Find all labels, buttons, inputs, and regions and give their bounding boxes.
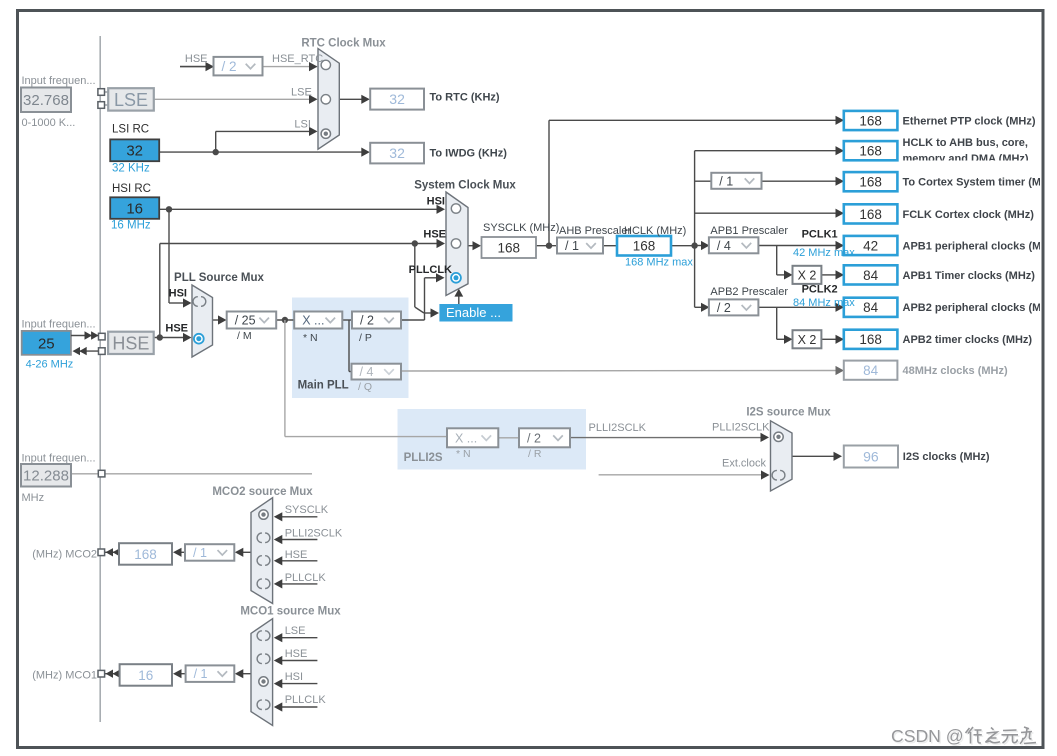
svg-text:* N: * N [456,448,471,460]
svg-text:168: 168 [859,113,882,128]
svg-text:32: 32 [126,143,143,160]
svg-text:To RTC (KHz): To RTC (KHz) [430,91,500,103]
svg-text:/ 25: / 25 [235,314,256,328]
svg-text:PLLCLK: PLLCLK [409,264,452,276]
svg-text:42: 42 [863,238,878,253]
svg-text:168: 168 [859,207,882,222]
svg-text:PLLCLK: PLLCLK [285,694,327,706]
svg-text:PCLK2: PCLK2 [802,284,838,296]
svg-text:/ 2: / 2 [717,301,731,315]
svg-text:HSI: HSI [427,196,445,208]
svg-text:/ R: / R [528,448,542,460]
svg-text:12.288: 12.288 [23,468,69,485]
svg-text:/ M: / M [237,330,252,342]
svg-text:RTC Clock Mux: RTC Clock Mux [301,37,386,49]
svg-text:(MHz) MCO1: (MHz) MCO1 [32,670,97,682]
svg-text:SYSCLK (MHz): SYSCLK (MHz) [483,222,559,234]
svg-text:LSE: LSE [114,90,148,110]
svg-text:168: 168 [859,175,882,190]
svg-text:FCLK Cortex clock (MHz): FCLK Cortex clock (MHz) [903,209,1035,221]
svg-text:PLLCLK: PLLCLK [285,572,327,584]
svg-text:Ethernet PTP clock (MHz): Ethernet PTP clock (MHz) [903,115,1036,127]
svg-text:25: 25 [38,335,55,352]
svg-text:/ P: / P [359,332,372,344]
svg-text:X ...: X ... [302,314,324,328]
svg-text:/ Q: / Q [358,381,372,393]
svg-text:AHB Prescaler: AHB Prescaler [559,225,631,237]
svg-text:Ext.clock: Ext.clock [722,458,767,470]
svg-text:To IWDG (KHz): To IWDG (KHz) [430,148,508,160]
svg-text:* N: * N [303,332,318,344]
svg-text:Input frequen...: Input frequen... [22,453,96,465]
svg-text:HSE_RTC: HSE_RTC [272,53,323,65]
svg-text:LSE: LSE [291,86,312,98]
svg-text:/ 1: / 1 [193,546,207,560]
svg-text:16: 16 [126,200,143,217]
svg-text:Input frequen...: Input frequen... [22,318,96,330]
svg-text:48MHz clocks (MHz): 48MHz clocks (MHz) [903,365,1008,377]
svg-text:84: 84 [863,300,879,315]
svg-text:APB1 Timer clocks (MHz): APB1 Timer clocks (MHz) [903,270,1036,282]
svg-text:84: 84 [863,268,879,283]
svg-text:42 MHz max: 42 MHz max [793,247,855,259]
svg-text:APB2 Prescaler: APB2 Prescaler [710,286,788,298]
svg-text:SYSCLK: SYSCLK [285,504,329,516]
svg-text:PLLI2S: PLLI2S [404,452,443,464]
svg-text:HCLK (MHz): HCLK (MHz) [624,225,686,237]
svg-text:APB2 timer clocks (MHz): APB2 timer clocks (MHz) [903,334,1033,346]
svg-text:PCLK1: PCLK1 [802,229,838,241]
svg-text:HSE: HSE [285,648,308,660]
svg-text:96: 96 [863,449,879,465]
svg-text:PLLI2SCLK: PLLI2SCLK [285,527,343,539]
svg-text:/ 1: / 1 [565,239,579,253]
svg-text:168: 168 [497,240,520,255]
svg-text:84: 84 [863,363,879,378]
svg-text:168: 168 [859,332,882,347]
svg-text:Input frequen...: Input frequen... [22,75,96,87]
svg-text:/ 4: / 4 [360,365,374,379]
svg-text:PLLI2SCLK: PLLI2SCLK [589,422,647,434]
svg-text:16: 16 [138,668,153,683]
svg-text:LSI RC: LSI RC [112,123,149,135]
svg-text:4-26 MHz: 4-26 MHz [26,359,74,371]
svg-text:CSDN @: CSDN @ [891,726,964,746]
svg-text:HSE: HSE [185,53,208,65]
svg-text:MCO1 source Mux: MCO1 source Mux [240,606,341,618]
svg-text:32: 32 [389,91,405,107]
svg-text:168: 168 [134,547,157,562]
svg-text:32 KHz: 32 KHz [112,162,150,174]
svg-text:APB1 Prescaler: APB1 Prescaler [710,225,788,237]
svg-text:Main PLL: Main PLL [298,380,349,392]
svg-text:168: 168 [633,239,656,254]
svg-text:MCO2 source Mux: MCO2 source Mux [212,486,313,498]
svg-text:HSI: HSI [169,288,187,300]
svg-text:/ 2: / 2 [527,431,541,445]
svg-text:PLL Source Mux: PLL Source Mux [174,272,264,284]
svg-text:PLLI2SCLK: PLLI2SCLK [712,422,770,434]
svg-text:/ 1: / 1 [719,174,733,188]
svg-text:/ 1: / 1 [194,667,208,681]
svg-text:HSE: HSE [112,333,149,353]
svg-text:To Cortex System timer (MHz): To Cortex System timer (MHz) [903,177,1057,189]
svg-text:HSI: HSI [285,671,303,683]
svg-text:Enable ...: Enable ... [446,305,501,320]
svg-text:/ 2: / 2 [222,59,237,74]
svg-text:APB2 peripheral clocks (MHz): APB2 peripheral clocks (MHz) [903,302,1057,314]
svg-text:HCLK to AHB bus, core,: HCLK to AHB bus, core, [903,137,1029,149]
svg-text:HSE: HSE [285,549,308,561]
svg-text:X 2: X 2 [798,333,817,347]
svg-text:0-1000 K...: 0-1000 K... [22,117,76,129]
svg-text:HSI RC: HSI RC [112,183,151,195]
svg-text:I2S clocks (MHz): I2S clocks (MHz) [903,451,990,463]
svg-text:HSE: HSE [423,228,446,240]
svg-text:I2S source Mux: I2S source Mux [746,406,831,418]
svg-text:X ...: X ... [455,431,477,445]
svg-text:84 MHz max: 84 MHz max [793,297,855,309]
svg-text:(MHz) MCO2: (MHz) MCO2 [32,548,97,560]
svg-text:X 2: X 2 [798,268,817,282]
svg-text:LSE: LSE [285,625,306,637]
svg-text:LSI: LSI [294,119,311,131]
svg-text:/ 2: / 2 [360,314,374,328]
svg-text:32: 32 [389,145,405,161]
svg-text:APB1 peripheral clocks (MHz): APB1 peripheral clocks (MHz) [903,240,1057,252]
svg-text:168: 168 [859,144,882,159]
svg-text:168 MHz max: 168 MHz max [625,256,693,268]
svg-text:HSE: HSE [165,322,188,334]
svg-text:16 MHz: 16 MHz [111,220,151,232]
svg-text:MHz: MHz [22,492,45,504]
svg-text:/ 4: / 4 [717,239,731,253]
svg-text:32.768: 32.768 [23,92,69,109]
svg-text:System Clock Mux: System Clock Mux [414,180,516,192]
